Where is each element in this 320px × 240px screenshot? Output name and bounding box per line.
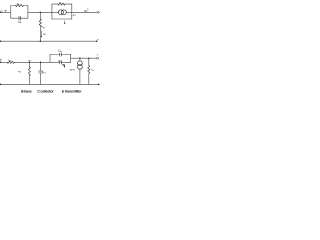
- svg-text:E transmitter: E transmitter: [62, 90, 82, 94]
- svg-text:b′e: b′e: [44, 73, 46, 75]
- svg-text:b′c: b′c: [60, 51, 62, 53]
- svg-text:b′e: b′e: [44, 34, 46, 36]
- svg-text:v: v: [75, 14, 76, 16]
- svg-text:b′e: b′e: [43, 27, 45, 29]
- svg-text:ce: ce: [92, 70, 94, 72]
- svg-text:ce: ce: [60, 2, 62, 4]
- svg-text:b′e: b′e: [19, 72, 21, 74]
- svg-text:b′e: b′e: [73, 70, 75, 72]
- svg-text:b′e: b′e: [29, 60, 31, 62]
- svg-text:B base: B base: [21, 90, 32, 94]
- svg-text:b′e: b′e: [60, 61, 62, 63]
- svg-text:C collector: C collector: [37, 90, 54, 94]
